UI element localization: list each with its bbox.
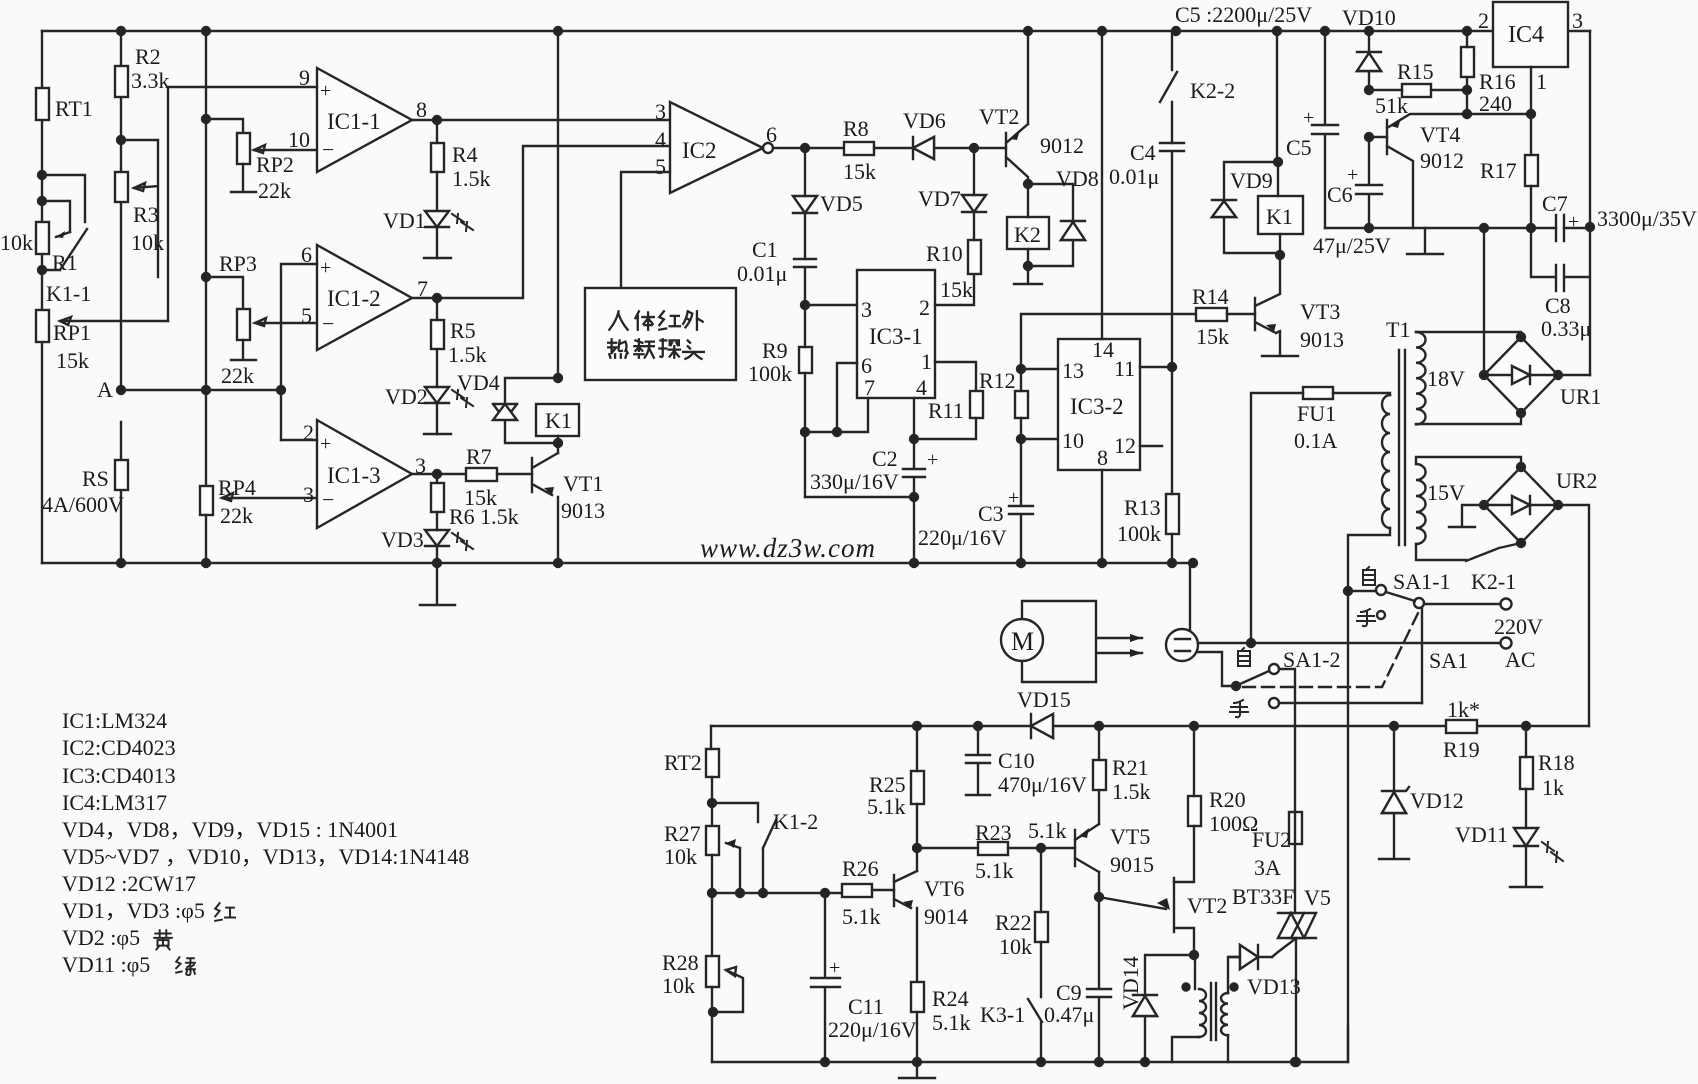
capacitor C4 (1160, 143, 1184, 367)
resistor R25 (911, 771, 924, 804)
wire: C1 to IC3-1 pin3 (805, 304, 857, 306)
potentiometer RP3 (237, 309, 250, 340)
wire: RP3 feed (206, 277, 243, 309)
socket symbol (二) (1166, 629, 1198, 661)
svg-text:VD12: VD12 (1410, 788, 1464, 813)
svg-text:15k: 15k (940, 277, 973, 302)
wire: pin 8 down to bus (1101, 470, 1103, 563)
svg-text:www.dz3w.com: www.dz3w.com (700, 533, 876, 563)
svg-text:1: 1 (1536, 69, 1547, 94)
svg-text:SA1-1: SA1-1 (1393, 569, 1450, 594)
svg-text:2: 2 (919, 295, 930, 320)
svg-text:10: 10 (288, 127, 310, 152)
svg-text:RP3: RP3 (219, 251, 257, 276)
wire: pin2 to R10 (935, 274, 974, 305)
gate IC2 (670, 102, 763, 193)
bridge rectifier UR2 (1484, 467, 1558, 543)
op-amp IC1-2 (317, 245, 412, 350)
svg-text:IC2:CD4023: IC2:CD4023 (62, 735, 176, 760)
diode VD7 (973, 148, 975, 195)
svg-text:15k: 15k (1196, 324, 1229, 349)
svg-text:22k: 22k (258, 178, 291, 203)
svg-text:VD4，VD8，VD9，VD15 : 1N4001: VD4，VD8，VD9，VD15 : 1N4001 (62, 817, 398, 842)
svg-text:1k: 1k (1542, 775, 1564, 800)
ground under R24 (899, 1062, 935, 1078)
resistor R4 (431, 143, 444, 172)
fuse FU2 (1289, 812, 1302, 844)
transistor VT2 9012 (1006, 31, 1028, 184)
triac V5 (1278, 913, 1316, 938)
svg-text:5: 5 (655, 154, 666, 179)
svg-text:+: + (1347, 164, 1358, 186)
svg-text:3: 3 (861, 297, 872, 322)
svg-text:VD6: VD6 (903, 108, 946, 133)
wire: DC common rail (1325, 227, 1590, 229)
potentiometer R1 (36, 222, 49, 254)
svg-text:VT5: VT5 (1110, 824, 1150, 849)
svg-text:4A/600V: 4A/600V (42, 492, 124, 517)
svg-text:10k: 10k (664, 844, 697, 869)
svg-text:+: + (320, 433, 331, 455)
glyph huang (yellow) legend (154, 930, 172, 949)
svg-text:K2-1: K2-1 (1471, 569, 1516, 594)
svg-text:R27: R27 (664, 821, 701, 846)
svg-text:AC: AC (1505, 647, 1536, 672)
svg-text:VD1: VD1 (383, 208, 426, 233)
svg-text:1.5k: 1.5k (1112, 779, 1151, 804)
ground on rail (1407, 228, 1443, 254)
svg-text:5: 5 (301, 303, 312, 328)
svg-text:C8: C8 (1545, 293, 1571, 318)
wire: pin 2 from node A (281, 439, 317, 441)
diode VD6 (913, 137, 974, 159)
svg-text:C5 :2200μ/25V: C5 :2200μ/25V (1175, 2, 1312, 27)
LED VD3 (436, 512, 438, 530)
svg-text:22k: 22k (221, 363, 254, 388)
svg-text:K3-1: K3-1 (980, 1002, 1025, 1027)
svg-text:1.5k: 1.5k (448, 342, 487, 367)
svg-text:−: − (322, 311, 334, 336)
glyph lv (green) legend (176, 957, 195, 975)
wire: IC1-3 output (412, 473, 466, 475)
transformer T1 core (1399, 350, 1405, 545)
svg-text:A: A (97, 377, 113, 402)
svg-text:11: 11 (1114, 356, 1135, 381)
capacitor C8 (1531, 227, 1590, 375)
wire: top supply bus (42, 30, 1590, 32)
diode VD4 (493, 378, 558, 443)
glyph hong (red) legend (215, 903, 235, 921)
diode VD13 (1230, 945, 1272, 969)
resistor R26 (842, 884, 872, 897)
pulse transformer core (1211, 983, 1216, 1040)
svg-text:RP2: RP2 (256, 152, 294, 177)
glyph zi (auto) at SA1-2 (1238, 648, 1250, 666)
wire: oscillator ground bus (712, 1026, 1348, 1062)
svg-text:RP1: RP1 (53, 320, 91, 345)
wire: pin10 (1021, 438, 1058, 440)
svg-text:VD14: VD14 (1118, 956, 1143, 1010)
wire: pin 6 to node A (281, 264, 317, 440)
svg-text:22k: 22k (220, 503, 253, 528)
LED VD2 (436, 349, 438, 387)
op-amp IC1-1 (317, 68, 412, 172)
transistor VT6 9014 (894, 871, 917, 908)
wire: pin 9 input (168, 87, 317, 321)
transistor VT1 9013 (532, 453, 558, 495)
svg-text:R11: R11 (928, 398, 964, 423)
svg-text:100k: 100k (748, 361, 792, 386)
wire: VT4 base (1369, 136, 1387, 138)
svg-text:240: 240 (1479, 91, 1512, 116)
sensor box text line1: ren ti hong wai (609, 311, 702, 329)
potentiometer RP4 (200, 486, 213, 515)
svg-text:FU2: FU2 (1252, 827, 1291, 852)
svg-text:51k: 51k (1375, 93, 1408, 118)
svg-text:+: + (1303, 107, 1314, 129)
wire: left vertical rail x=42 (41, 31, 43, 563)
relay coil K2 (1007, 217, 1049, 249)
svg-text:R12: R12 (979, 368, 1016, 393)
svg-text:K2: K2 (1014, 222, 1041, 247)
sensor box 人体红外热释探头 (585, 288, 736, 380)
LED VD1 (425, 172, 449, 258)
junction dot R2/R3 (117, 136, 125, 144)
svg-text:0.33μ: 0.33μ (1541, 316, 1591, 341)
flip-flop IC3-2 (1058, 339, 1140, 470)
svg-text:14: 14 (1092, 337, 1114, 362)
svg-text:VD10: VD10 (1342, 5, 1396, 30)
resistor R13 (1166, 494, 1179, 534)
wire: pin1 to R11 (935, 362, 976, 391)
svg-text:K2-2: K2-2 (1190, 78, 1235, 103)
svg-text:VD4: VD4 (457, 370, 500, 395)
svg-text:IC1-3: IC1-3 (327, 463, 381, 488)
svg-text:VD11 :φ5: VD11 :φ5 (62, 952, 150, 977)
resistor R23 (978, 842, 1008, 855)
svg-text:VT6: VT6 (924, 876, 964, 901)
svg-text:VT3: VT3 (1300, 299, 1340, 324)
svg-text:0.01μ: 0.01μ (1109, 164, 1159, 189)
triac gate wire (1272, 939, 1295, 957)
svg-text:13: 13 (1062, 358, 1084, 383)
svg-text:T1: T1 (1386, 317, 1410, 342)
svg-text:10k: 10k (131, 230, 164, 255)
T1 18V secondary (1416, 332, 1426, 424)
T1 primary winding (1382, 395, 1390, 528)
bridge rectifier UR1 (1484, 337, 1558, 413)
resistor R16 (1461, 47, 1474, 77)
wire: VT3 base line from IC3 (1021, 314, 1196, 369)
svg-text:12: 12 (1114, 433, 1136, 458)
svg-text:C3: C3 (978, 501, 1004, 526)
svg-text:10k: 10k (0, 230, 33, 255)
wire: UR1 left to rail (1483, 228, 1485, 375)
ground under VD2 (424, 433, 451, 435)
svg-text:R8: R8 (843, 116, 869, 141)
resistor R11 (970, 391, 983, 418)
LED VD11 (1514, 828, 1538, 846)
svg-text:VD2 :φ5: VD2 :φ5 (62, 925, 140, 950)
svg-text:0.47μ: 0.47μ (1044, 1002, 1094, 1027)
resistor R10 (968, 240, 981, 274)
svg-text:IC4: IC4 (1508, 22, 1544, 48)
potentiometer R28 (706, 956, 719, 987)
resistor R12 (1015, 391, 1028, 418)
svg-text:1.5k: 1.5k (452, 166, 491, 191)
svg-text:1: 1 (921, 349, 932, 374)
svg-text:4: 4 (655, 127, 666, 152)
potentiometer RP1 (36, 310, 49, 342)
svg-text:3: 3 (1572, 8, 1583, 33)
svg-text:9014: 9014 (924, 904, 968, 929)
resistor R21 (1093, 760, 1106, 790)
resistor R19 (1446, 720, 1477, 733)
resistor R6 (431, 483, 444, 512)
svg-text:9012: 9012 (1040, 133, 1084, 158)
node A wire (121, 389, 281, 391)
svg-text:IC3-2: IC3-2 (1070, 394, 1124, 419)
svg-text:10k: 10k (999, 934, 1032, 959)
svg-text:VT2: VT2 (979, 104, 1019, 129)
svg-text:R18: R18 (1538, 750, 1575, 775)
svg-text:VT4: VT4 (1420, 122, 1460, 147)
svg-text:R26: R26 (842, 856, 879, 881)
diode VD9 (1212, 162, 1280, 253)
svg-text:0.1A: 0.1A (1294, 428, 1338, 453)
svg-text:15V: 15V (1427, 480, 1465, 505)
wire: IC2 output node (773, 147, 844, 149)
svg-text:5.1k: 5.1k (867, 794, 906, 819)
wire: T1 primary bottom to SA1-1 (1348, 528, 1390, 1062)
svg-text:2: 2 (303, 420, 314, 445)
svg-text:220μ/16V: 220μ/16V (918, 525, 1007, 550)
svg-text:R13: R13 (1124, 495, 1161, 520)
svg-text:15k: 15k (56, 348, 89, 373)
wire: oscillator top rail (711, 725, 1589, 727)
svg-text:8: 8 (416, 97, 427, 122)
svg-text:M: M (1011, 627, 1034, 656)
svg-text:C10: C10 (998, 748, 1035, 773)
capacitor C2 (electrolytic) (903, 398, 925, 497)
svg-text:K1: K1 (545, 408, 572, 433)
mechanical link dashed (1243, 607, 1421, 687)
switch K2-2 (1160, 31, 1177, 143)
svg-text:R9: R9 (762, 338, 788, 363)
pulse transformer right winding (1221, 993, 1228, 1035)
svg-text:100k: 100k (1117, 521, 1161, 546)
svg-text:100Ω: 100Ω (1209, 811, 1258, 836)
resistor R20 (1188, 796, 1201, 826)
legend text block (62, 708, 469, 977)
potentiometer RP2 (237, 133, 250, 164)
svg-text:R10: R10 (926, 241, 963, 266)
svg-text:18V: 18V (1427, 366, 1465, 391)
svg-text:R23: R23 (975, 820, 1012, 845)
diode VD15 (1031, 714, 1053, 738)
svg-text:V5: V5 (1304, 885, 1331, 910)
resistor R24 (911, 982, 924, 1012)
svg-text:5.1k: 5.1k (975, 858, 1014, 883)
svg-text:3A: 3A (1254, 855, 1281, 880)
svg-text:R20: R20 (1209, 787, 1246, 812)
wire: motor AC line (1198, 642, 1500, 644)
op-amp IC1-3 (317, 420, 412, 528)
wire: socket feed from bus (1189, 563, 1191, 630)
motor M with plug (1001, 619, 1043, 661)
svg-text:IC1-1: IC1-1 (327, 109, 381, 134)
transistor VT4 9012 (1387, 114, 1467, 228)
svg-text:+: + (927, 449, 938, 471)
svg-text:R2: R2 (135, 44, 161, 69)
svg-text:47μ/25V: 47μ/25V (1313, 233, 1391, 258)
svg-text:VT2: VT2 (1187, 893, 1227, 918)
switch K3-1 (1028, 999, 1042, 1062)
wire: IC4 pin1 (1467, 67, 1531, 114)
svg-text:VD5: VD5 (820, 191, 863, 216)
svg-text:VD7: VD7 (918, 186, 961, 211)
svg-text:R24: R24 (932, 986, 969, 1011)
junction dots on top bus (117, 27, 1471, 35)
svg-text:C11: C11 (848, 994, 884, 1019)
svg-text:VD9: VD9 (1230, 168, 1273, 193)
wire: IC1-2 output 7 up to IC2 pin 4 (412, 146, 670, 298)
svg-text:5.1k: 5.1k (1028, 818, 1067, 843)
svg-text:10: 10 (1062, 428, 1084, 453)
resistor R2 (115, 66, 128, 97)
transistor VT3 9013 (1255, 255, 1280, 332)
svg-text:R6 1.5k: R6 1.5k (449, 504, 519, 529)
resistor R18 (1520, 757, 1533, 789)
unijunction transistor VT2 BT33F (1174, 878, 1194, 955)
svg-text:3300μ/35V: 3300μ/35V (1597, 206, 1697, 231)
switch SA1-2 (1198, 652, 1231, 686)
svg-text:R14: R14 (1192, 284, 1229, 309)
potentiometer R27 (706, 826, 719, 855)
svg-text:VD1，VD3 :φ5: VD1，VD3 :φ5 (62, 898, 205, 923)
svg-text:9012: 9012 (1420, 148, 1464, 173)
svg-text:10k: 10k (662, 973, 695, 998)
glyph zi (auto) at SA1-1 (1363, 567, 1375, 585)
switch SA1-1 (1376, 585, 1386, 595)
svg-text:R15: R15 (1397, 59, 1434, 84)
svg-text:K1: K1 (1266, 204, 1293, 229)
resistor R14 (1196, 308, 1227, 321)
svg-text:C7: C7 (1542, 191, 1568, 216)
wire: VT6 base rail (712, 855, 842, 893)
svg-text:3: 3 (303, 482, 314, 507)
svg-text:3: 3 (655, 99, 666, 124)
ground under VT3 (1262, 355, 1298, 357)
svg-text:R19: R19 (1443, 737, 1480, 762)
switch K1-1 (42, 175, 87, 270)
svg-text:9015: 9015 (1110, 852, 1154, 877)
flip-flop IC3-1 (857, 270, 935, 398)
svg-text:2: 2 (1478, 8, 1489, 33)
svg-text:C2: C2 (872, 446, 898, 471)
svg-text:BT33F: BT33F (1232, 884, 1294, 909)
fuse/resistor RS (115, 460, 128, 490)
svg-text:VD12 :2CW17: VD12 :2CW17 (62, 871, 196, 896)
node dots on x=42 (38, 171, 46, 274)
svg-text:5.1k: 5.1k (842, 904, 881, 929)
svg-text:C1: C1 (752, 237, 778, 262)
svg-text:R22: R22 (995, 910, 1032, 935)
svg-text:R3: R3 (133, 202, 159, 227)
svg-text:VD13: VD13 (1247, 974, 1301, 999)
wire: pin 11 (1140, 366, 1172, 368)
resistor R8 (844, 142, 874, 155)
svg-text:1k*: 1k* (1447, 697, 1480, 722)
svg-text:−: − (322, 137, 334, 162)
wire: 15V top to UR2 (1416, 457, 1521, 467)
svg-text:6: 6 (766, 122, 777, 147)
svg-text:9013: 9013 (1300, 327, 1344, 352)
svg-text:C4: C4 (1130, 140, 1156, 165)
wire: C2 bottom to bus (805, 497, 914, 563)
svg-text:R28: R28 (662, 950, 699, 975)
svg-text:FU1: FU1 (1297, 401, 1336, 426)
junction dots on x=207 (202, 115, 210, 567)
diode VD14 (1133, 955, 1194, 1062)
svg-text:IC1:LM324: IC1:LM324 (62, 708, 167, 733)
svg-text:−: − (322, 487, 334, 512)
svg-text:8: 8 (1097, 445, 1108, 470)
wire: supply drop x=558 to K1 (557, 31, 559, 378)
wire: bottom return bus (upper section) (42, 562, 1193, 564)
wire: RP2 feed (206, 119, 243, 133)
svg-text:R17: R17 (1480, 158, 1517, 183)
wire: pin 12 stub (1140, 445, 1162, 447)
svg-text:+: + (829, 957, 840, 979)
svg-text:R5: R5 (450, 318, 476, 343)
switch K1-2 (712, 803, 776, 893)
svg-text:R21: R21 (1112, 755, 1149, 780)
resistor R9 (799, 347, 812, 373)
capacitor C3 (electrolytic) (1009, 439, 1033, 563)
svg-text:7: 7 (864, 375, 875, 400)
wire: UR2 right down to bus (1558, 505, 1589, 726)
svg-text:UR1: UR1 (1560, 384, 1602, 409)
svg-text:VD15: VD15 (1017, 687, 1071, 712)
svg-text:C5: C5 (1286, 135, 1312, 160)
glyph shou (hand) at SA1-1 (1357, 609, 1375, 626)
glyph shou (hand) at SA1-2 (1230, 700, 1248, 717)
svg-text:5.1k: 5.1k (932, 1010, 971, 1035)
wire: 18V to UR1 (1416, 332, 1521, 424)
thermistor RT2 (706, 749, 719, 777)
svg-text:+: + (1568, 211, 1579, 233)
pulse transformer left winding (1199, 989, 1206, 1037)
regulator IC4 (1493, 2, 1568, 67)
thermistor RT1 (36, 88, 49, 120)
UR2 left contact bracket (1449, 505, 1484, 527)
svg-text:R7: R7 (466, 444, 492, 469)
wire: pin6/pin7 bracket (805, 363, 868, 432)
svg-text:VD11: VD11 (1455, 822, 1508, 847)
zener VD12 (1379, 726, 1409, 859)
sensor box text line2: re shi tan tou (608, 339, 704, 359)
svg-text:470μ/16V: 470μ/16V (998, 772, 1087, 797)
resistor R15 (1402, 84, 1431, 97)
svg-text:4: 4 (916, 375, 927, 400)
svg-text:330μ/16V: 330μ/16V (810, 469, 899, 494)
wire: K1 supply from top bus (1276, 31, 1278, 162)
svg-text:IC4:LM317: IC4:LM317 (62, 790, 167, 815)
diode VD10 (1357, 31, 1381, 90)
svg-text:RP4: RP4 (218, 475, 256, 500)
wire: IC2 pin5 to sensor box (621, 172, 670, 288)
